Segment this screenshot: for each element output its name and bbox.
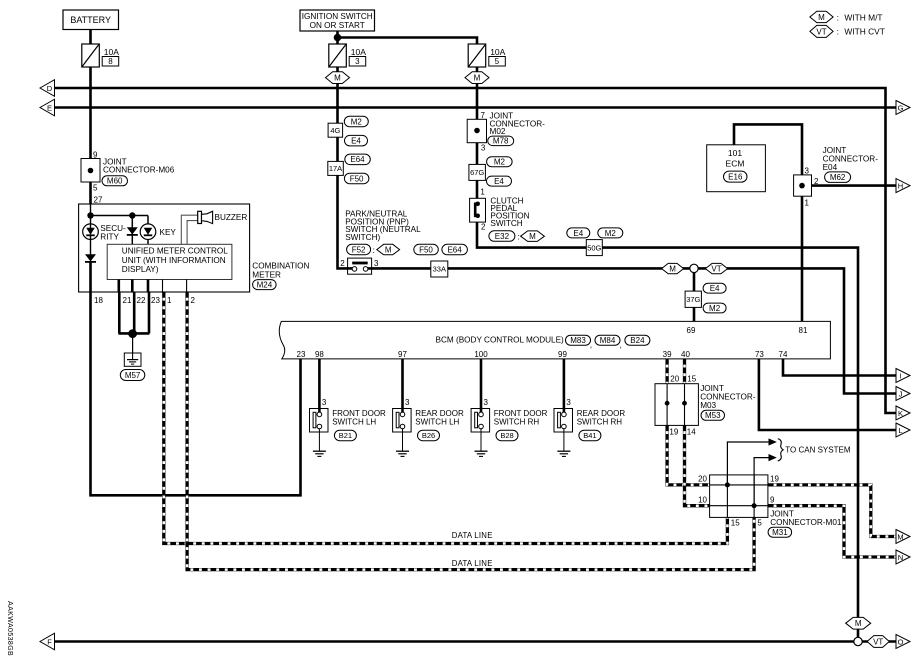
wire BCM pin 40 to joint connector M03 pin 15 (dashed) — [683, 359, 686, 384]
wire ignition switch down and branch to fuse 5 — [338, 31, 478, 44]
svg-text:3: 3 — [355, 57, 360, 66]
fuse 10A 8 — [82, 44, 119, 67]
svg-text::: : — [837, 12, 839, 22]
svg-text:19: 19 — [669, 427, 678, 436]
svg-text:M: M — [529, 232, 536, 241]
node junction key diode branch — [129, 212, 135, 218]
joint connector M02 — [467, 111, 545, 153]
svg-text:CONNECTOR-M01: CONNECTOR-M01 — [770, 518, 842, 527]
svg-text:M02: M02 — [490, 127, 506, 136]
bus E horizontal line to arrow G — [54, 106, 896, 109]
arrow O — [896, 635, 910, 649]
svg-text:3: 3 — [405, 398, 410, 407]
wire joint connector E04 pin 2 to arrow H — [812, 184, 897, 187]
svg-text:M03: M03 — [700, 401, 716, 410]
svg-text::: : — [837, 27, 839, 37]
junction circle M/VT — [690, 264, 698, 272]
connector 33A — [431, 261, 448, 277]
svg-text:WITH CVT: WITH CVT — [844, 27, 884, 37]
svg-text:E32: E32 — [495, 232, 510, 241]
meter pin labels — [94, 296, 196, 305]
wire meter pins 21 22 23 to ground junction — [118, 292, 149, 333]
buzzer — [181, 211, 247, 244]
park/neutral position PNP switch — [340, 258, 379, 274]
svg-text:L: L — [898, 426, 902, 435]
svg-text:15: 15 — [731, 518, 740, 527]
connector 37G — [685, 291, 701, 307]
svg-text:23: 23 — [151, 296, 160, 305]
label M2 of 50G — [598, 228, 623, 238]
svg-text:ECM: ECM — [726, 159, 745, 169]
wire fuse 3 to hexagon M — [336, 67, 339, 72]
svg-text:2: 2 — [481, 222, 486, 231]
svg-text:UNIFIED METER CONTROL: UNIFIED METER CONTROL — [122, 247, 228, 256]
svg-text:M60: M60 — [107, 177, 123, 186]
junction ignition branch — [334, 34, 342, 42]
svg-text:M53: M53 — [705, 411, 721, 420]
svg-text:SWITCH LH: SWITCH LH — [415, 417, 459, 426]
wire M/VT junction down through 37G to BCM pin 69 — [693, 272, 696, 321]
svg-text:14: 14 — [687, 427, 696, 436]
svg-text:10A: 10A — [490, 47, 505, 57]
wire joint connector M01 pin 19 to arrow M (dashed) — [768, 485, 896, 537]
wire security branch down through LED and diode — [90, 216, 92, 255]
hexagon VT on bottom bus — [867, 636, 889, 648]
svg-text:WITH M/T: WITH M/T — [844, 12, 882, 22]
svg-text:27: 27 — [94, 196, 103, 205]
svg-text:F52: F52 — [352, 245, 366, 254]
svg-text:BUZZER: BUZZER — [215, 213, 248, 222]
svg-text:VT: VT — [711, 265, 721, 274]
arrow H — [896, 179, 910, 193]
svg-text:E4: E4 — [494, 177, 504, 186]
svg-text:22: 22 — [137, 296, 146, 305]
label E4 of 67G — [487, 176, 512, 186]
svg-text:8: 8 — [108, 57, 113, 66]
label E4 of 50G — [567, 228, 590, 238]
hexagon M fuse 3 — [326, 72, 350, 84]
wire PNP switch pin 3 through 33A to M/VT junction and to arrow J — [366, 268, 897, 393]
security indicator LED — [83, 224, 126, 242]
svg-text:74: 74 — [779, 350, 788, 359]
wire below security diode to pin 18 — [89, 262, 92, 292]
svg-text:1: 1 — [167, 296, 172, 305]
svg-text:50G: 50G — [587, 243, 601, 252]
wire ECM pin 101 up and over to joint connector E04 pin 3 — [734, 124, 802, 174]
svg-text:3: 3 — [322, 398, 327, 407]
park/neutral position switch labels — [345, 210, 421, 255]
clutch pedal position switch — [470, 187, 545, 241]
svg-text:3: 3 — [374, 259, 379, 268]
ECM — [707, 145, 766, 192]
svg-text:97: 97 — [398, 350, 407, 359]
svg-text:SWITCH RH: SWITCH RH — [577, 417, 623, 426]
svg-text:E04: E04 — [823, 163, 838, 172]
svg-text:73: 73 — [755, 350, 764, 359]
wire M01 to CAN arrow 2 — [754, 454, 777, 506]
junction circle bottom bus — [854, 637, 862, 645]
fuse 10A 3 — [329, 44, 366, 67]
bus bottom horizontal line from arrow F to arrow O — [55, 640, 896, 643]
svg-text:20: 20 — [670, 374, 679, 383]
svg-text:10: 10 — [698, 496, 707, 505]
svg-text:B41: B41 — [583, 431, 596, 440]
svg-text:M2: M2 — [494, 158, 506, 167]
label E64 of 33A — [442, 244, 468, 255]
svg-text:B24: B24 — [630, 336, 645, 345]
label E64 of 17A — [345, 154, 371, 165]
svg-text:40: 40 — [681, 350, 690, 359]
bus D horizontal line to arrow K — [54, 88, 896, 413]
svg-text:I: I — [899, 371, 901, 380]
arrow J — [896, 387, 910, 401]
wire clutch pedal position switch pin 2 through 50G right and down to bottom junction — [477, 215, 858, 642]
arrow G — [896, 101, 910, 115]
svg-text:E4: E4 — [351, 137, 361, 146]
svg-text:TO CAN SYSTEM: TO CAN SYSTEM — [785, 446, 851, 455]
svg-text:M2: M2 — [605, 229, 617, 238]
svg-text:100: 100 — [474, 350, 488, 359]
ground M57 — [120, 353, 145, 381]
svg-text:SWITCH RH: SWITCH RH — [494, 417, 540, 426]
svg-text:7: 7 — [481, 111, 486, 120]
svg-text:1: 1 — [805, 199, 810, 208]
svg-text:IGNITION SWITCH: IGNITION SWITCH — [302, 12, 373, 21]
label M2 of 4G — [344, 116, 368, 127]
wire diode branch into unified meter control unit — [131, 216, 133, 245]
svg-text:3: 3 — [566, 398, 571, 407]
label E4 of 37G — [703, 283, 726, 293]
unified meter control unit — [107, 244, 232, 279]
wire hexagon M down to joint connector M02 (crosses bus D and E) — [476, 83, 479, 119]
svg-text:2: 2 — [814, 177, 819, 186]
wire M01 to CAN arrow 1 — [727, 438, 776, 485]
svg-text:81: 81 — [799, 326, 808, 335]
svg-text:M62: M62 — [830, 173, 846, 182]
svg-text:M: M — [669, 265, 676, 274]
wire hexagon M down through 4G and 17A to PNP switch (crosses bus D and E) — [338, 83, 353, 268]
svg-text:H: H — [898, 181, 903, 190]
svg-text:5: 5 — [93, 184, 98, 193]
ignition switch — [300, 10, 375, 31]
arrow N — [896, 550, 910, 564]
svg-text:RITY: RITY — [100, 233, 119, 242]
legend hexagon M with M/T — [810, 11, 883, 22]
svg-text:SWITCH): SWITCH) — [345, 233, 380, 242]
svg-text:O: O — [898, 637, 904, 646]
svg-text:3: 3 — [484, 398, 489, 407]
svg-text:19: 19 — [770, 475, 779, 484]
label F50 of 17A — [344, 173, 369, 184]
svg-text:BCM (BODY CONTROL MODULE): BCM (BODY CONTROL MODULE) — [436, 336, 565, 345]
wire BCM pin 74 to arrow I — [783, 359, 896, 376]
svg-text:M24: M24 — [257, 281, 273, 290]
data line wire meter pin 1 to joint connector M01 pin 15 (dashed) — [164, 292, 728, 544]
wire BCM pin 39 to joint connector M03 pin 20 (dashed) — [665, 359, 668, 384]
svg-text:M: M — [385, 246, 392, 255]
svg-text:M78: M78 — [493, 137, 509, 146]
wire battery to fuse 8 — [89, 30, 92, 45]
combination meter box — [79, 204, 250, 292]
svg-text:2: 2 — [191, 296, 196, 305]
svg-text:15: 15 — [687, 374, 696, 383]
svg-text:B28: B28 — [500, 431, 513, 440]
arrow E — [40, 99, 55, 116]
svg-text:D: D — [47, 84, 53, 93]
svg-text:F50: F50 — [350, 174, 364, 183]
svg-text::: : — [373, 245, 375, 255]
connector 50G — [586, 240, 602, 256]
combination meter label — [252, 262, 309, 290]
svg-text:M2: M2 — [709, 304, 721, 313]
wire BCM pin 73 to arrow L — [759, 359, 896, 430]
svg-text:20: 20 — [698, 475, 707, 484]
wire key led branch into unified meter control unit — [147, 216, 149, 245]
svg-text:M: M — [855, 619, 862, 628]
diode below security LED — [85, 254, 96, 262]
connector 4G — [328, 123, 343, 137]
svg-text:E4: E4 — [710, 284, 720, 293]
svg-text:3: 3 — [805, 167, 810, 176]
svg-text:K: K — [898, 409, 903, 418]
wire joint connector E04 pin 1 to BCM pin 81 — [801, 196, 804, 321]
arrow F — [40, 633, 55, 650]
diode on branch to unified unit — [127, 227, 138, 235]
node ground junction — [128, 329, 137, 338]
joint connector M06 — [81, 151, 175, 205]
label F50 of 33A — [414, 244, 439, 255]
hexagon VT on neutral line — [705, 263, 727, 273]
wire unified unit to meter pin 23 — [147, 280, 150, 293]
wire unified unit to meter pin 1 — [162, 280, 164, 293]
arrow I — [896, 369, 910, 383]
svg-text:DATA LINE: DATA LINE — [452, 531, 493, 540]
svg-text:4G: 4G — [330, 126, 340, 135]
svg-text:F50: F50 — [419, 246, 433, 255]
svg-text:J: J — [899, 389, 903, 398]
svg-text:E: E — [47, 103, 52, 112]
svg-text:COMBINATION: COMBINATION — [252, 262, 309, 271]
hexagon M on neutral line — [662, 263, 684, 273]
arrow L — [896, 423, 910, 437]
svg-text:10A: 10A — [104, 47, 119, 57]
wire combination meter pin 18 to BCM pin 23 — [91, 292, 301, 495]
svg-text:M83: M83 — [570, 336, 586, 345]
svg-text:DISPLAY): DISPLAY) — [122, 265, 159, 274]
svg-text:M: M — [334, 74, 341, 83]
wire joint connector M03 pin 19 to joint connector M01 pin 20 (dashed) — [667, 425, 710, 485]
wire unified unit to meter pin 21 — [118, 280, 121, 293]
svg-text:1: 1 — [480, 187, 485, 196]
arrow K — [896, 406, 910, 420]
svg-text:M: M — [818, 13, 825, 22]
svg-text:M2: M2 — [351, 117, 363, 126]
svg-text:E16: E16 — [728, 173, 743, 182]
svg-text:B21: B21 — [339, 431, 352, 440]
svg-text:KEY: KEY — [160, 228, 177, 237]
wire fuse 8 to joint connector M06 (crosses bus D and E) — [89, 67, 92, 159]
svg-text:21: 21 — [123, 296, 132, 305]
wire joint connector M03 pin 14 to joint connector M01 pin 10 (dashed) — [685, 425, 710, 505]
wire unified unit to meter pin 22 — [131, 280, 134, 293]
svg-text:E4: E4 — [573, 229, 583, 238]
svg-text:37G: 37G — [686, 295, 700, 304]
joint connector E04 — [794, 146, 879, 208]
rear door switch RH — [554, 359, 625, 457]
svg-text:23: 23 — [297, 350, 306, 359]
wire meter internal bus pin 27 — [91, 204, 149, 216]
svg-text:BATTERY: BATTERY — [70, 15, 111, 25]
svg-text:99: 99 — [558, 350, 567, 359]
svg-text:F: F — [47, 637, 52, 646]
svg-text:98: 98 — [315, 350, 324, 359]
BCM body control module — [279, 321, 830, 359]
label E4 of 4G — [345, 135, 368, 146]
svg-text:M: M — [474, 74, 481, 83]
battery — [63, 10, 119, 30]
svg-text:M84: M84 — [600, 336, 616, 345]
svg-text:M31: M31 — [772, 528, 788, 537]
wire unified unit to meter pin 2 — [186, 280, 188, 293]
hexagon M fuse 5 — [465, 72, 489, 84]
svg-text:101: 101 — [728, 148, 742, 158]
label M2 of 37G — [703, 303, 726, 313]
svg-text:9: 9 — [93, 151, 98, 160]
svg-text:18: 18 — [94, 296, 103, 305]
svg-text:METER: METER — [252, 271, 281, 280]
svg-text:G: G — [898, 103, 904, 112]
wire fuse 5 to hexagon M — [476, 67, 479, 72]
svg-text:DATA LINE: DATA LINE — [452, 559, 493, 568]
svg-text:VT: VT — [816, 27, 826, 36]
svg-text:M57: M57 — [125, 371, 141, 380]
connector 17A — [328, 161, 344, 175]
fuse 10A 5 — [468, 44, 505, 67]
svg-text:9: 9 — [770, 496, 775, 505]
node junction security branch — [87, 212, 93, 218]
hexagon M on clutch line bottom — [846, 617, 871, 629]
wire joint connector M02 pin 3 through 67G to clutch pedal position switch pin 1 — [476, 143, 479, 205]
wire junction to ground M57 — [132, 334, 134, 353]
svg-text::: : — [518, 231, 520, 241]
svg-text:17A: 17A — [329, 164, 342, 173]
svg-text:39: 39 — [663, 350, 672, 359]
rear door switch LH — [393, 359, 464, 457]
data line wire meter pin 2 to joint connector M01 pin 5 (dashed) — [187, 292, 754, 570]
key indicator LED — [140, 224, 176, 240]
svg-text:SWITCH: SWITCH — [490, 219, 522, 228]
wire joint connector M01 pin 9 to arrow N (dashed) — [768, 506, 896, 557]
svg-text:E64: E64 — [447, 246, 462, 255]
svg-text:2: 2 — [340, 259, 345, 268]
to CAN system label — [778, 439, 851, 461]
front door switch LH — [310, 359, 387, 457]
svg-text:N: N — [898, 553, 903, 562]
svg-text:VT: VT — [873, 637, 883, 646]
svg-text:ON OR START: ON OR START — [310, 21, 365, 30]
arrow M — [896, 530, 910, 544]
label M2 of 67G — [487, 157, 512, 167]
svg-text:67G: 67G — [470, 168, 484, 177]
svg-text:5: 5 — [495, 57, 500, 66]
svg-text:CONNECTOR-M06: CONNECTOR-M06 — [103, 165, 175, 174]
svg-text:E64: E64 — [350, 155, 365, 164]
svg-text:M: M — [897, 532, 903, 541]
svg-text:UNIT (WITH INFORMATION: UNIT (WITH INFORMATION — [122, 256, 226, 265]
front door switch RH — [471, 359, 548, 457]
connector 67G — [469, 164, 486, 180]
legend hexagon VT with CVT — [810, 25, 885, 37]
svg-text:10A: 10A — [351, 47, 366, 57]
wire joint connector M06 to combination meter pin 27 — [89, 182, 92, 204]
svg-text:69: 69 — [687, 326, 696, 335]
svg-text:3: 3 — [481, 144, 486, 153]
svg-text:33A: 33A — [433, 265, 446, 274]
svg-text:,: , — [590, 340, 592, 350]
joint connector M01 — [698, 475, 842, 538]
svg-text:5: 5 — [757, 518, 762, 527]
svg-text:AAKWA0538GB: AAKWA0538GB — [6, 601, 13, 656]
svg-text:B26: B26 — [422, 431, 435, 440]
joint connector M03 — [655, 374, 756, 436]
svg-text:SWITCH LH: SWITCH LH — [332, 417, 376, 426]
arrow D — [40, 80, 55, 97]
svg-text:,: , — [620, 340, 622, 350]
